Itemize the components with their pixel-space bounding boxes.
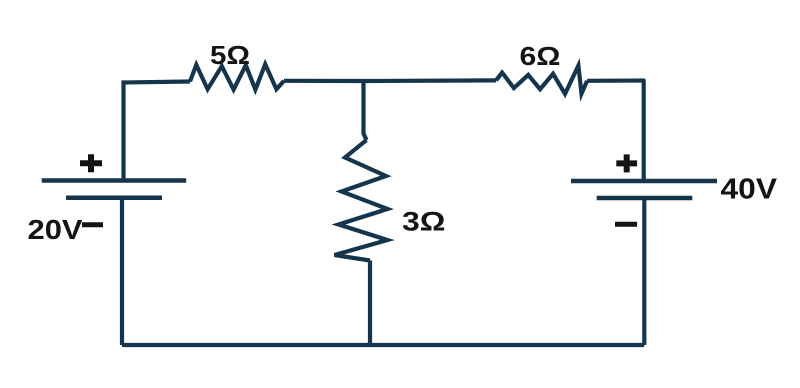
battery V2 bottom plate (-) xyxy=(597,196,693,201)
svg-text:3Ω: 3Ω xyxy=(402,207,446,237)
wire: right vertical below battery xyxy=(642,198,646,345)
svg-text:6Ω: 6Ω xyxy=(520,41,561,71)
wire: left vertical below battery xyxy=(120,198,124,345)
svg-text:20V: 20V xyxy=(28,214,83,245)
wire: top-right segment + right vertical down to battery xyxy=(587,81,644,182)
battery V1 bottom plate (-) xyxy=(66,196,162,201)
resistor 6Ω zigzag xyxy=(496,66,587,94)
plus sign battery V2 xyxy=(616,154,637,172)
svg-text:5Ω: 5Ω xyxy=(210,40,250,70)
resistor 3Ω zigzag xyxy=(335,140,388,261)
resistor 5Ω zigzag xyxy=(190,64,284,89)
battery V1 top plate (+) xyxy=(42,178,187,183)
wire: left vertical + top-left segment xyxy=(124,82,191,181)
wire: middle branch top stub xyxy=(364,81,367,140)
svg-text:40V: 40V xyxy=(721,174,778,206)
wire: bottom xyxy=(122,343,644,347)
minus sign battery V2 xyxy=(615,222,637,227)
battery V2 top plate (+) xyxy=(571,179,717,184)
plus sign battery V1 xyxy=(80,154,102,172)
wire: middle branch bottom stub xyxy=(368,261,372,346)
minus sign battery V1 xyxy=(82,222,103,227)
wire: top middle segment xyxy=(284,78,496,83)
